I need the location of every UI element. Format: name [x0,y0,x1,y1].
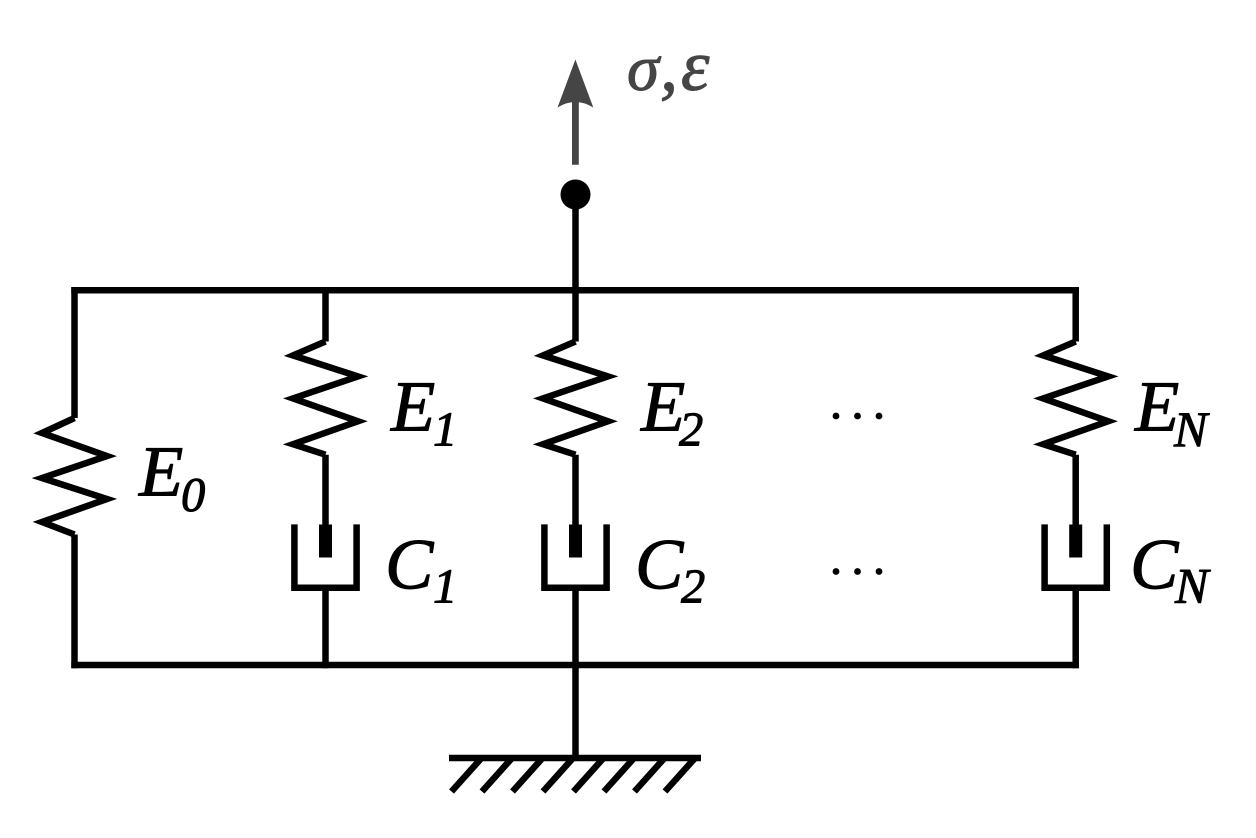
dashpot C1 cup [294,524,356,587]
dashpot CN cup [1045,524,1107,587]
wire right edge upper [1072,287,1079,341]
svg-text:E: E [1134,366,1179,447]
svg-text:C: C [1130,524,1180,605]
ellipsis dots lower [833,568,883,575]
svg-text:C: C [635,524,685,605]
ground [449,758,701,792]
svg-text:N: N [1173,401,1210,457]
node top terminal [561,180,591,210]
wire branch2 top [572,287,579,341]
wire branch2 middle [572,455,579,528]
spring E2 [543,342,608,455]
spring E1 [293,342,358,455]
ellipsis dots upper [833,413,883,420]
wire bottom rail to ground [572,665,579,758]
dashpot C2 piston [569,525,582,558]
svg-text:,: , [660,26,678,106]
svg-text:0: 0 [181,469,205,522]
svg-text:E: E [138,431,183,512]
svg-text:2: 2 [681,561,705,614]
wire branch1 middle [322,455,329,528]
svg-text:ε: ε [681,26,710,106]
arrow sigma-epsilon direction [558,60,594,165]
wire top rail [71,287,1079,294]
svg-text:C: C [385,524,435,605]
wire terminal to top rail [572,205,579,293]
wire branch1 bottom [322,588,329,668]
spring E0 [42,418,107,535]
svg-text:E: E [390,366,435,447]
wire branch1 top [322,287,329,341]
svg-text:2: 2 [679,404,703,457]
dashpot CN piston [1069,525,1082,558]
dashpot C1 piston [319,525,332,558]
svg-text:N: N [1174,558,1211,614]
wire right edge middle [1072,455,1079,528]
wire left edge upper [71,287,78,418]
svg-text:1: 1 [433,404,457,457]
wire bottom rail [71,662,1079,669]
dashpot C2 cup [544,524,606,587]
wire branch2 bottom [572,588,579,668]
svg-text:1: 1 [433,561,457,614]
spring EN [1043,342,1108,455]
wire right edge lower [1072,588,1079,668]
svg-text:σ: σ [627,33,662,105]
wire left edge lower [71,535,78,669]
